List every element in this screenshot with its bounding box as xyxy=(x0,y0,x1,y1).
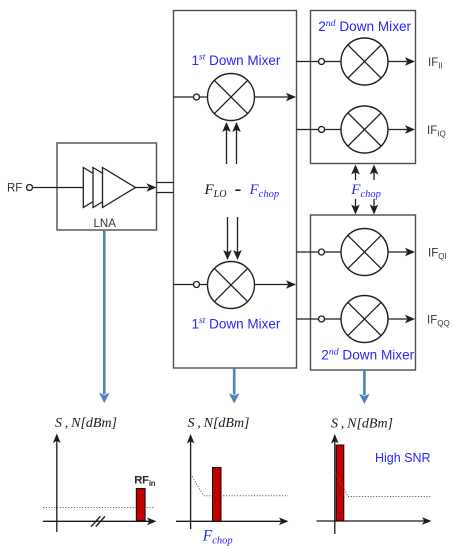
plot1 axis break xyxy=(91,516,105,526)
mixer M3 xyxy=(341,38,388,85)
plot3 x-axis xyxy=(317,517,432,525)
plot1 RF bar xyxy=(136,489,145,521)
IF_II label xyxy=(428,57,443,71)
svg-text:RFin: RFin xyxy=(134,475,155,489)
High SNR label xyxy=(375,451,431,465)
svg-text:Fchop: Fchop xyxy=(202,528,233,547)
amplifier stage 2 xyxy=(93,168,126,208)
svg-text:S , N[dBm]: S , N[dBm] xyxy=(55,416,117,431)
plot2 x-axis xyxy=(176,518,289,526)
mixer M4 output wire xyxy=(388,125,415,134)
plot1 y-axis xyxy=(53,434,61,533)
plot2 y-axis xyxy=(187,434,195,529)
RF label xyxy=(7,183,22,195)
mixer M1 xyxy=(208,74,255,121)
plot2 signal bar xyxy=(213,468,222,522)
svg-text:High SNR: High SNR xyxy=(375,451,431,465)
amplifier stage 3 xyxy=(103,168,136,208)
F_chop label (right) xyxy=(350,182,381,200)
LNA label xyxy=(94,218,117,230)
F_chop up arrows into I block xyxy=(351,165,378,181)
mixer M5 output wire xyxy=(388,248,415,257)
amplifier stage 1 xyxy=(83,168,116,208)
label 1st Down Mixer (bottom) xyxy=(192,316,281,332)
plot3 noise dotted slope xyxy=(335,472,431,497)
mixer M1 output wire xyxy=(255,93,297,102)
mixer M4 input wire xyxy=(297,127,341,133)
blue arrow from 2nd stage xyxy=(359,371,370,404)
1st down-mixer stage block xyxy=(174,11,297,369)
svg-text:RF: RF xyxy=(7,183,22,195)
minus sign xyxy=(235,189,240,191)
plot2 F_chop label xyxy=(202,528,233,547)
mixer M2 output wire xyxy=(255,280,297,289)
svg-text:S , N[dBm]: S , N[dBm] xyxy=(331,417,393,432)
mixer M6 output wire xyxy=(388,315,415,324)
mixer M3 output wire xyxy=(388,57,415,66)
plot1 axis label S,N[dBm] xyxy=(55,416,117,431)
plot1 x-axis xyxy=(43,518,157,526)
mixer M6 xyxy=(341,296,388,343)
blue arrow from LNA xyxy=(99,231,110,403)
F_LO label xyxy=(204,182,227,200)
mixer M2 input wire xyxy=(174,282,209,288)
mixer M1 input wire xyxy=(174,94,209,100)
svg-text:LNA: LNA xyxy=(94,218,117,230)
mixer M4 xyxy=(341,106,388,153)
plot3 y-axis xyxy=(331,434,339,534)
2nd down-mixer I block xyxy=(311,11,416,164)
IF_IQ label xyxy=(427,125,446,139)
IF_QI label xyxy=(428,248,447,262)
label 2nd Down Mixer (bottom right) xyxy=(321,346,414,362)
svg-text:Fchop: Fchop xyxy=(350,182,381,200)
bus wires LNA to mixer stage xyxy=(157,183,174,193)
mixer M3 input wire xyxy=(297,59,341,65)
IF_QQ label xyxy=(427,315,450,329)
F_chop down arrows into Q block xyxy=(351,199,378,215)
label 2nd Down Mixer (top right) xyxy=(318,18,411,34)
svg-text:S , N[dBm]: S , N[dBm] xyxy=(188,416,250,431)
mixer M6 input wire xyxy=(297,316,341,322)
mixer M5 xyxy=(341,229,388,276)
RFin label xyxy=(134,475,155,489)
plot2 noise dotted slope xyxy=(191,474,288,496)
LO up arrows to M1 xyxy=(222,122,241,164)
plot2 axis label S,N[dBm] xyxy=(188,416,250,431)
svg-text:1st Down Mixer: 1st Down Mixer xyxy=(192,316,281,332)
plot1 noise floor dotted xyxy=(43,507,154,509)
LO down arrows to M2 xyxy=(223,217,242,260)
svg-text:IFIQ: IFIQ xyxy=(427,125,446,139)
svg-text:IFQQ: IFQQ xyxy=(427,315,450,329)
LNA output wire xyxy=(136,183,157,192)
svg-text:IFQI: IFQI xyxy=(428,248,447,262)
2nd down-mixer Q block xyxy=(311,215,416,370)
mixer M5 input wire xyxy=(297,249,341,255)
label 1st Down Mixer (top) xyxy=(192,53,281,69)
RF input terminal xyxy=(27,185,84,191)
blue arrow from 1st stage xyxy=(229,369,240,404)
plot3 axis label S,N[dBm] xyxy=(331,417,393,432)
svg-text:1st Down Mixer: 1st Down Mixer xyxy=(192,53,281,69)
mixer M2 xyxy=(208,262,255,309)
LNA block xyxy=(57,143,157,230)
svg-text:IFII: IFII xyxy=(428,57,443,71)
plot3 signal bar xyxy=(336,445,344,521)
F_chop label (mid) xyxy=(249,182,280,200)
